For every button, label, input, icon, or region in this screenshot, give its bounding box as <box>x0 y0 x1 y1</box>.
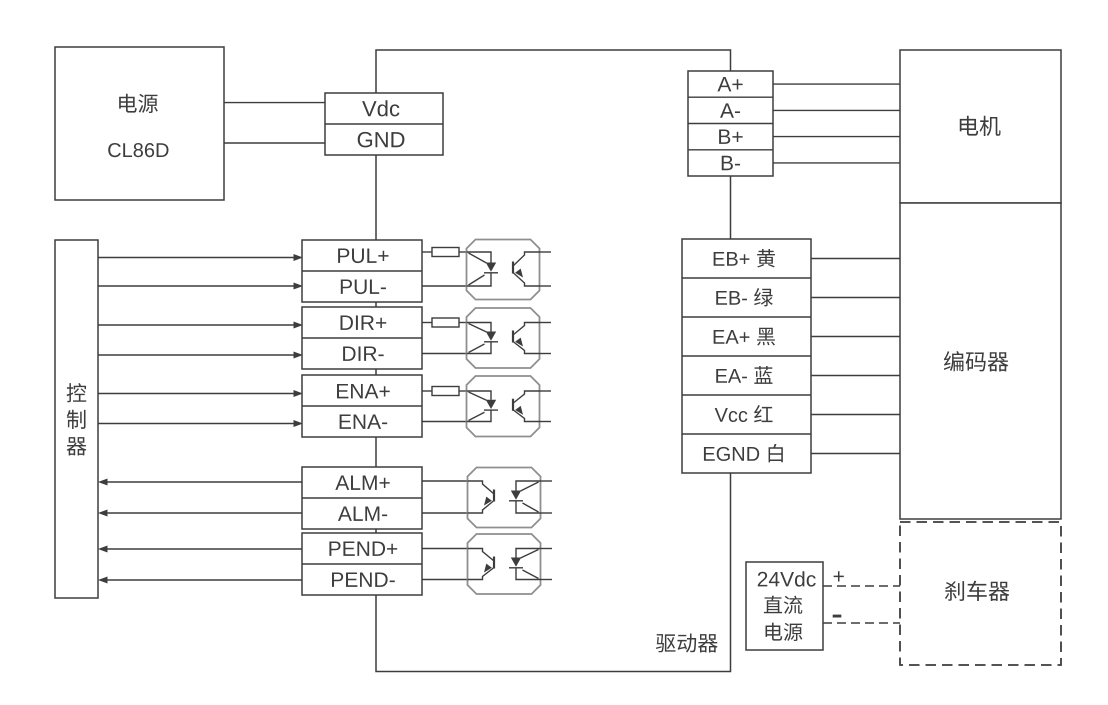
terminal block DIR <box>302 307 422 369</box>
label EA- 蓝 <box>716 369 727 383</box>
wire ALM+ to controller (arrow left) <box>107 481 302 483</box>
motor box 电机 <box>900 50 1061 203</box>
label Vcc 红 <box>715 408 728 422</box>
terminal block ALM <box>302 467 422 529</box>
wire encoder row 6 <box>811 453 900 455</box>
brake box 刹车器 (dashed) <box>900 522 1061 665</box>
terminal block A+/A-/B+/B- <box>688 71 773 176</box>
resistor R PUL+ <box>422 251 432 253</box>
wire A+ to motor <box>773 83 900 85</box>
resistor R DIR+ <box>422 322 432 324</box>
wire PUL- to opto <box>422 285 467 287</box>
label EA+ 黑 <box>714 330 725 344</box>
resistor R ENA+ <box>422 390 432 392</box>
wire encoder row 3 <box>811 336 900 338</box>
wire encoder row 5 <box>811 414 900 416</box>
wire ALM+ to opto <box>422 480 468 482</box>
wire B+ to motor <box>773 136 900 138</box>
wire A- to motor <box>773 109 900 111</box>
optocoupler U2 (DIR) <box>467 308 540 368</box>
wire PEND+ to controller (arrow left) <box>107 548 302 550</box>
label + <box>834 571 844 581</box>
wire controller to PUL+ (arrow right) <box>98 257 294 259</box>
wire encoder row 2 <box>811 297 900 299</box>
wire controller to DIR+ (arrow right) <box>98 324 294 326</box>
wire PEND+ to opto <box>422 548 468 550</box>
optocoupler U4 (ALM) <box>468 468 541 528</box>
wire 电源 to GND <box>224 142 325 144</box>
terminal Vdc/GND <box>325 93 443 155</box>
wire B- to motor <box>773 162 900 164</box>
label EB- 绿 <box>716 291 727 305</box>
encoder box 编码器 <box>900 203 1061 519</box>
wire controller to ENA+ (arrow right) <box>98 393 294 395</box>
label EGND 白 <box>704 447 715 461</box>
wire ALM- to opto <box>422 512 468 514</box>
dashed wire 24Vdc + to brake <box>823 585 900 587</box>
label 驱动器 <box>656 634 676 652</box>
wire PEND- to controller (arrow left) <box>107 579 302 581</box>
wire 电源 to Vdc <box>224 102 325 104</box>
optocoupler U5 (PEND) <box>468 534 541 594</box>
label EB+ 黄 <box>714 252 725 266</box>
driver outline box <box>376 50 731 672</box>
terminal block PEND <box>302 533 422 595</box>
label - <box>833 615 842 618</box>
optocoupler U3 (ENA) <box>467 376 540 437</box>
optocoupler U1 (PUL) <box>467 240 540 300</box>
wire ALM- to controller (arrow left) <box>107 512 302 514</box>
wire encoder row 1 <box>811 258 900 260</box>
wire ENA- to opto <box>422 421 467 423</box>
power supply box 电源 CL86D <box>55 47 224 200</box>
controller box 控制器 <box>55 240 98 598</box>
wire DIR- to opto <box>422 353 467 355</box>
wire controller to DIR- (arrow right) <box>98 354 294 356</box>
terminal block ENA <box>302 375 422 437</box>
wire encoder row 4 <box>811 375 900 377</box>
wire controller to ENA- (arrow right) <box>98 423 294 425</box>
wire controller to PUL- (arrow right) <box>98 285 294 287</box>
terminal block encoder EB/EA/Vcc/EGND <box>682 239 811 473</box>
24Vdc supply box <box>746 562 823 650</box>
wire PEND- to opto <box>422 579 468 581</box>
dashed wire 24Vdc - to brake <box>823 622 900 624</box>
terminal block PUL <box>302 240 422 302</box>
